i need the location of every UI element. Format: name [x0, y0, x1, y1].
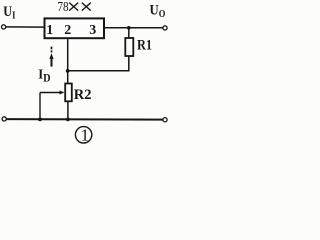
svg-text:2: 2 [64, 23, 71, 38]
node: R2 / ground rail junction [66, 118, 70, 122]
wire: ground rail [7, 118, 163, 121]
wire: pin 2 down lead [67, 39, 69, 83]
wire: R1 bottom lead to pin-2 node [68, 56, 129, 71]
resistor R1 [125, 38, 133, 56]
node: wiper / ground rail junction [38, 118, 42, 122]
wiper arrow of R2 [40, 91, 64, 120]
regulator U1 (78xx) body [45, 18, 105, 38]
wire: R2 bottom lead [67, 101, 69, 119]
svg-text:ID: ID [38, 66, 50, 85]
label 78×× [57, 0, 90, 14]
svg-text:UI: UI [3, 3, 16, 22]
current arrow I_D (dashed, pointing up) [49, 47, 53, 67]
node: output rail / R1 junction [127, 26, 131, 30]
output terminal (Uo) [163, 26, 167, 30]
wire: R1 top lead [128, 28, 130, 38]
wire: input rail [6, 26, 45, 28]
svg-text:1: 1 [46, 23, 53, 38]
svg-text:1: 1 [81, 125, 90, 144]
resistor R2 (rheostat body) [65, 84, 72, 102]
svg-text:UO: UO [150, 3, 166, 21]
svg-text:R1: R1 [137, 37, 152, 53]
svg-text:78: 78 [57, 0, 68, 14]
figure number ① [75, 125, 91, 144]
svg-text:R2: R2 [74, 87, 92, 103]
ground terminal left [2, 117, 6, 121]
node: pin-2 / R1 / R2 junction [66, 69, 70, 73]
ground terminal right [163, 118, 167, 122]
svg-text:3: 3 [89, 23, 96, 38]
input terminal (Ui) [2, 25, 6, 29]
wire: output rail [104, 27, 163, 29]
